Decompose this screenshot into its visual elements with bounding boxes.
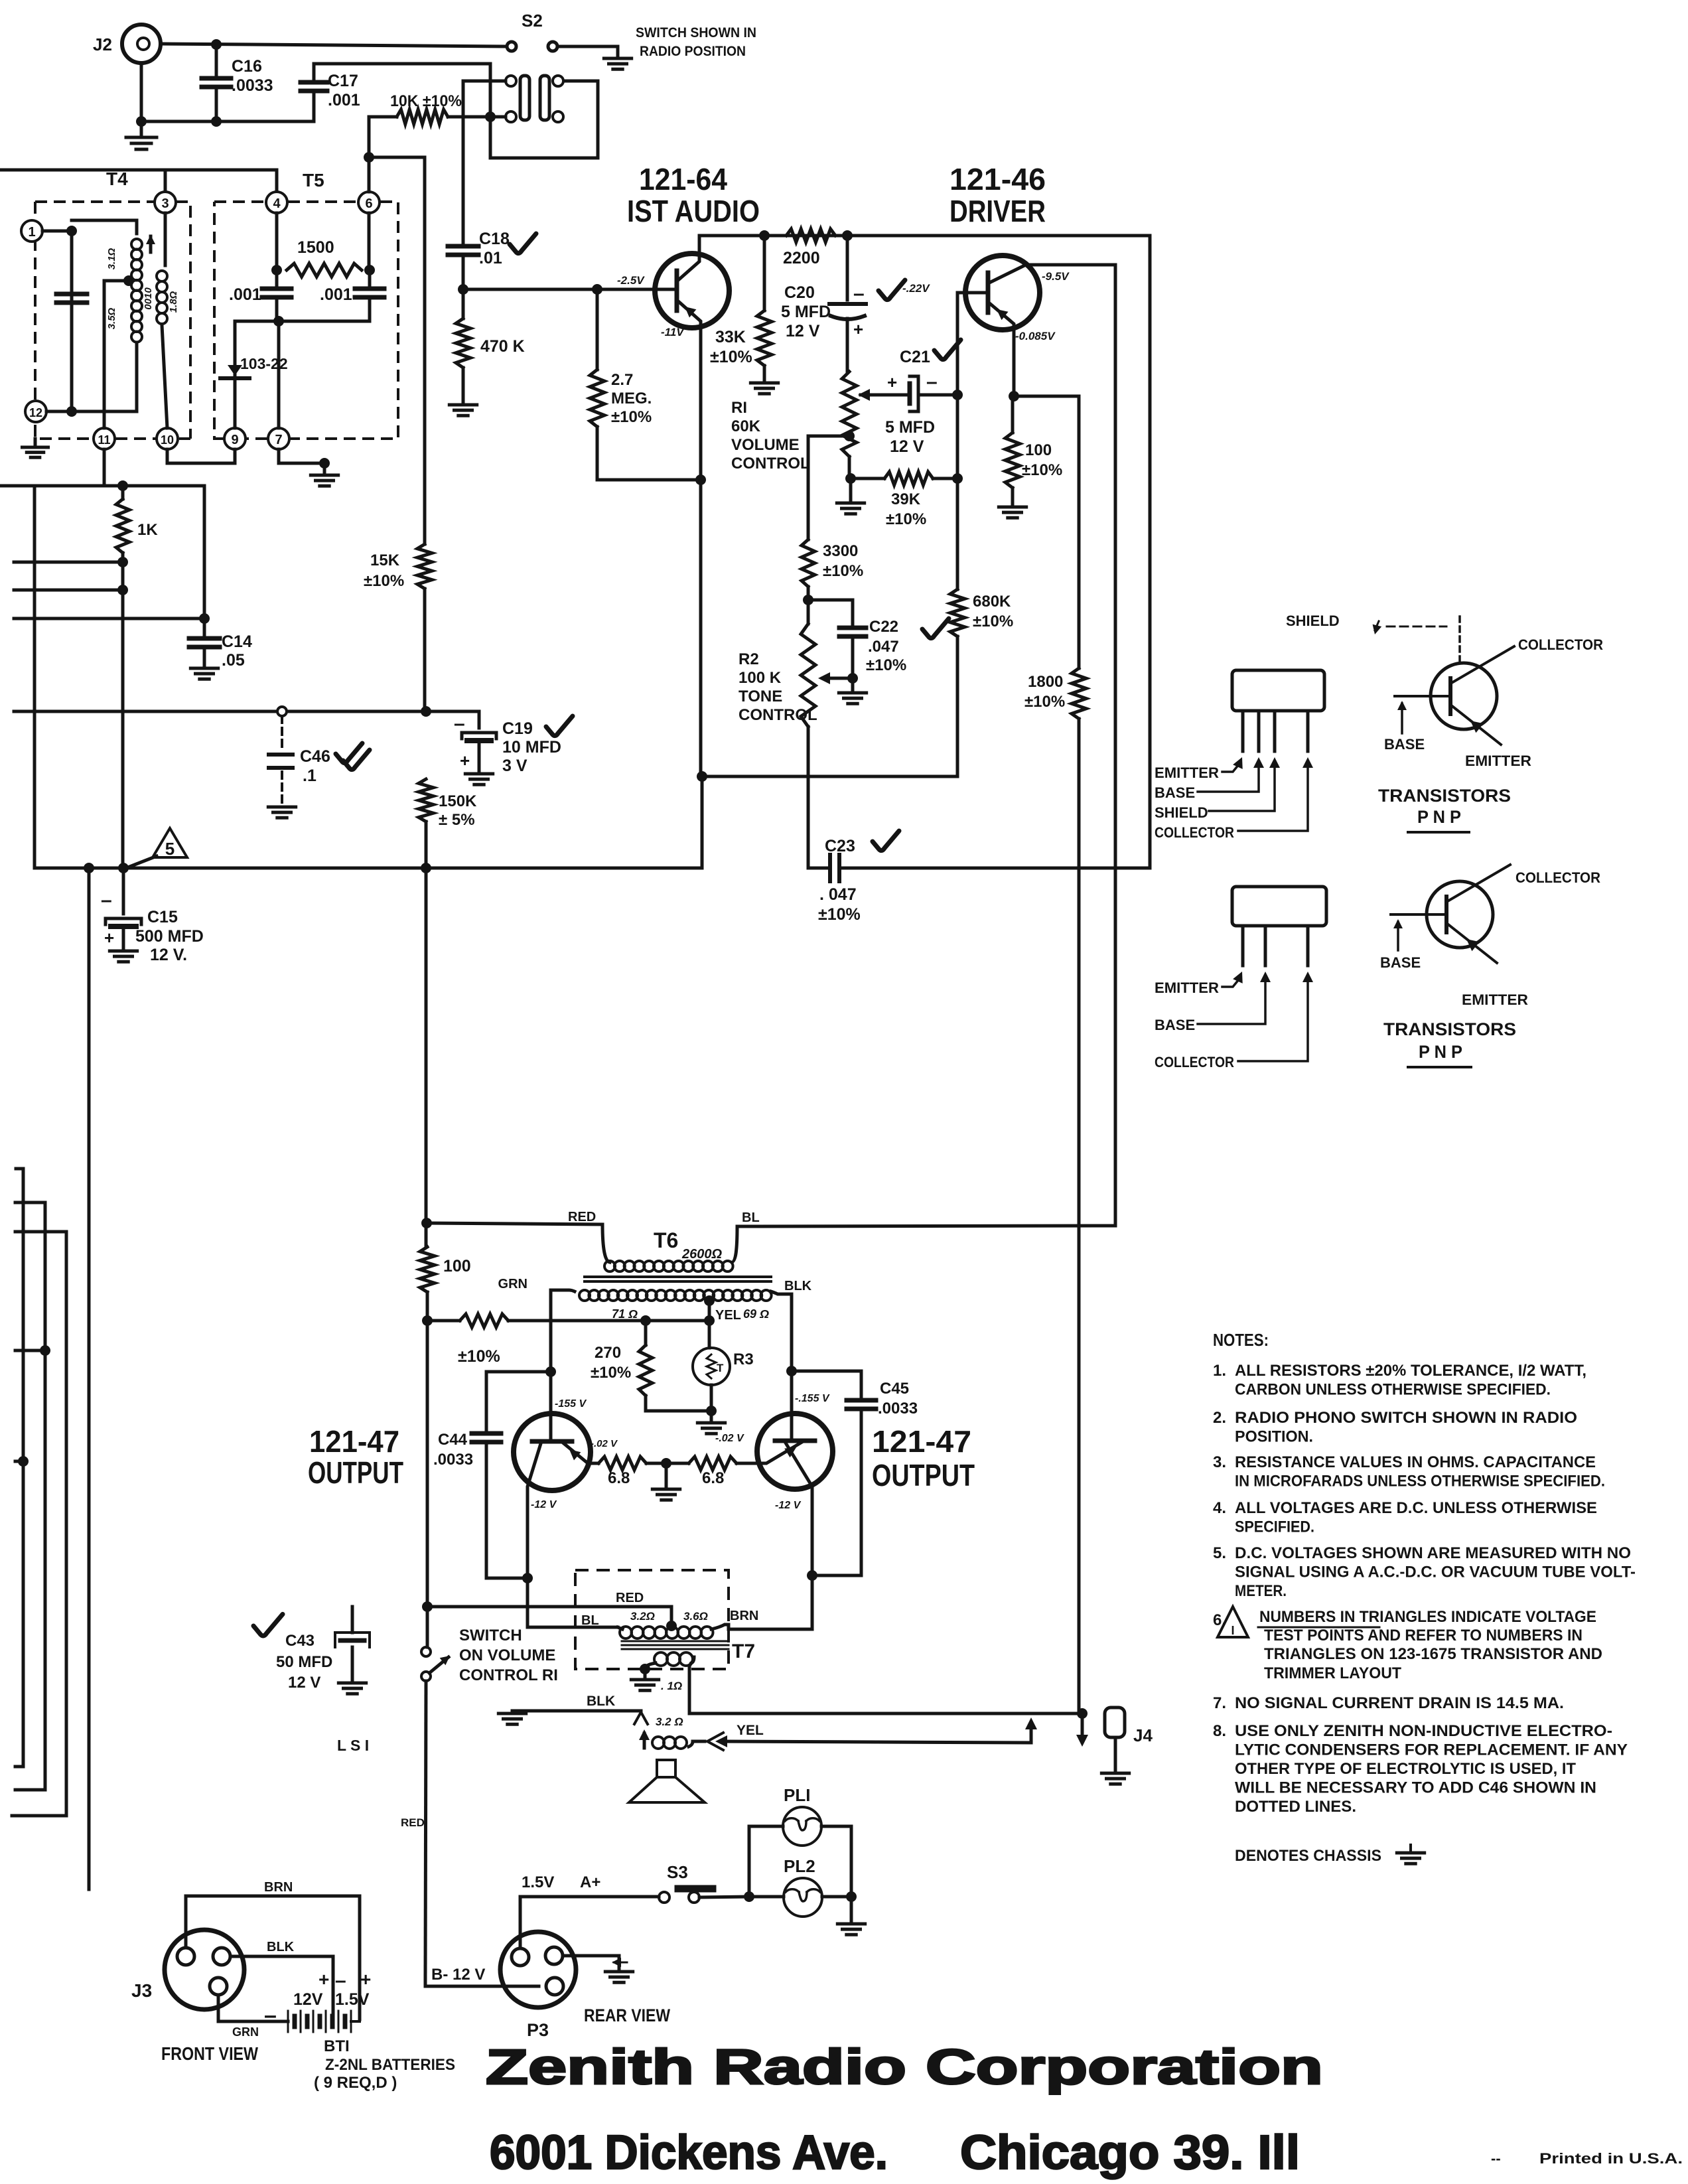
node PL2 right <box>846 1891 857 1902</box>
pnp1 collector <box>1450 646 1514 684</box>
svg-text:S2: S2 <box>522 11 543 31</box>
wire YEL <box>721 1741 1031 1743</box>
capacitor C44 <box>472 1431 501 1436</box>
checkmark C43 <box>253 1614 283 1636</box>
svg-text:+: + <box>853 319 863 339</box>
svg-text:±10%: ±10% <box>818 905 861 924</box>
switch S3 bar <box>678 1885 713 1893</box>
Q2 collector <box>988 265 1115 283</box>
chassis ground symbol <box>1409 1845 1412 1852</box>
svg-text:10: 10 <box>161 433 174 447</box>
svg-text:J4: J4 <box>1133 1725 1153 1745</box>
svg-text:COLLECTOR: COLLECTOR <box>1515 869 1600 886</box>
svg-text:C23: C23 <box>825 837 855 855</box>
svg-text:. 047: . 047 <box>819 885 857 904</box>
wire B-12V <box>425 1980 539 1986</box>
wire C45 bottom <box>812 1574 861 1577</box>
node C16 top <box>211 39 222 50</box>
svg-text:BL: BL <box>581 1613 599 1628</box>
svg-text:5: 5 <box>165 839 175 859</box>
svg-text:T7: T7 <box>732 1640 755 1662</box>
svg-text:.001: .001 <box>229 285 261 304</box>
svg-text:–: – <box>853 283 865 305</box>
wire C21 left <box>892 394 910 397</box>
svg-text:±10%: ±10% <box>823 562 863 580</box>
svg-text:3: 3 <box>161 196 169 211</box>
terminal 7 <box>268 428 289 449</box>
transistor package top view 1 <box>1232 670 1324 711</box>
terminal 3 <box>155 192 176 213</box>
svg-text:–: – <box>335 1970 346 1992</box>
wire 6.8 link <box>646 1462 689 1465</box>
svg-text:1.: 1. <box>1213 1362 1226 1380</box>
svg-text:3.: 3. <box>1213 1453 1226 1471</box>
P3 pin B <box>546 1978 563 1995</box>
svg-text:OTHER TYPE OF ELECTROLYTIC IS: OTHER TYPE OF ELECTROLYTIC IS USED, IT <box>1235 1760 1576 1778</box>
svg-text:. 1Ω: . 1Ω <box>661 1680 682 1692</box>
resistor 2.7MEG <box>596 289 599 370</box>
wire C14 gnd <box>203 647 206 667</box>
ground T5 <box>311 474 338 477</box>
wire 1K chain down <box>121 553 125 868</box>
svg-text:EMITTER: EMITTER <box>1462 991 1528 1008</box>
wire tap to tone chain <box>808 436 849 540</box>
transistor Q3 output <box>514 1414 591 1491</box>
svg-text:103-22: 103-22 <box>240 355 288 372</box>
ground at S2 <box>604 57 631 60</box>
svg-text:121-47: 121-47 <box>872 1424 971 1459</box>
svg-text:1: 1 <box>28 225 35 240</box>
wire PL2 leads <box>749 1895 784 1899</box>
svg-text:ALL VOLTAGES ARE D.C. UNLESS O: ALL VOLTAGES ARE D.C. UNLESS OTHERWISE <box>1235 1499 1597 1517</box>
svg-text:470 K: 470 K <box>480 337 525 356</box>
svg-text:( 9 REQ,D ): ( 9 REQ,D ) <box>314 2074 397 2092</box>
svg-text:60K: 60K <box>731 417 761 435</box>
svg-text:C17: C17 <box>328 72 358 90</box>
ground 100 <box>999 506 1026 509</box>
svg-text:+: + <box>360 1969 371 1990</box>
svg-text:10 MFD: 10 MFD <box>502 738 561 757</box>
inductor LS1 voice coil <box>652 1737 664 1749</box>
wire S2 arm to ground <box>557 46 618 57</box>
terminal 1 <box>21 220 42 242</box>
svg-text:-12 V: -12 V <box>531 1499 557 1510</box>
svg-text:METER.: METER. <box>1235 1582 1287 1600</box>
svg-text:± 5%: ± 5% <box>439 811 475 829</box>
capacitor C14 <box>189 636 220 641</box>
node C22 bottom <box>847 673 858 684</box>
transformer T4 dashed box <box>35 202 190 439</box>
svg-text:.1: .1 <box>303 766 316 785</box>
wire cap bottoms link <box>235 320 370 323</box>
resistor 6.8 left <box>598 1457 646 1470</box>
thermistor R3 <box>708 1321 711 1348</box>
Q4 collector <box>784 1441 812 1627</box>
switch arm <box>429 1657 449 1673</box>
transformer T5 dashed box <box>214 202 398 439</box>
ground J4 <box>1114 1737 1117 1772</box>
node pin7 gnd <box>319 458 330 469</box>
wire to C22 <box>808 600 853 628</box>
svg-text:4.: 4. <box>1213 1499 1226 1517</box>
ground R3 <box>710 1411 713 1421</box>
svg-text:69 Ω: 69 Ω <box>743 1307 769 1321</box>
capacitor C18 <box>448 244 478 249</box>
wire Q3 coll to T7 BL <box>527 1578 618 1627</box>
transistor package top view 2 <box>1232 887 1326 926</box>
pnp1 base lead <box>1395 695 1450 697</box>
svg-text:EMITTER: EMITTER <box>1155 980 1219 996</box>
svg-text:.0033: .0033 <box>433 1451 473 1469</box>
svg-text:L S I: L S I <box>337 1737 369 1754</box>
shield leader 1 <box>1209 766 1275 811</box>
wire YEL up arrow <box>1030 1723 1033 1743</box>
wire top link 3 to 4 <box>165 170 277 192</box>
svg-text:YEL: YEL <box>715 1308 741 1323</box>
resistor 6.8 right <box>689 1457 737 1470</box>
svg-text:71 Ω: 71 Ω <box>612 1307 638 1321</box>
checkmark C21 <box>934 340 961 360</box>
svg-text:OUTPUT: OUTPUT <box>872 1458 975 1492</box>
transistor Q1 1st audio <box>655 254 729 328</box>
ground below J2 <box>126 136 157 139</box>
svg-text:12V: 12V <box>293 1990 323 2009</box>
ground R1 <box>849 478 853 502</box>
ground C15 <box>109 950 137 953</box>
svg-text:RED: RED <box>616 1591 644 1605</box>
T6 core <box>585 1275 771 1278</box>
checkmark C19 <box>546 716 573 736</box>
svg-text:ALL RESISTORS ±20% TOLERANCE,: ALL RESISTORS ±20% TOLERANCE, I/2 WATT, <box>1235 1362 1586 1380</box>
Q1 emitter <box>677 300 701 480</box>
svg-text:T: T <box>717 1362 724 1374</box>
svg-text:RI: RI <box>731 399 747 417</box>
speaker LS1 <box>657 1760 675 1777</box>
svg-text:270: 270 <box>595 1344 621 1362</box>
node 3300-C22 <box>803 595 813 605</box>
svg-text:P3: P3 <box>527 2020 549 2040</box>
svg-text:P N P: P N P <box>1417 807 1461 827</box>
svg-text:121-64: 121-64 <box>639 162 727 196</box>
svg-text:-11V: -11V <box>661 326 685 338</box>
svg-text:–: – <box>264 2003 277 2028</box>
trimmer 103-22 <box>234 321 237 428</box>
wire 270 to R3 gnd <box>646 1410 711 1413</box>
svg-text:33K: 33K <box>715 328 746 346</box>
capacitor C23 <box>808 867 830 870</box>
svg-text:SIGNAL USING A A.C.-D.C. OR VA: SIGNAL USING A A.C.-D.C. OR VACUUM TUBE … <box>1235 1564 1636 1581</box>
svg-text:5.: 5. <box>1213 1544 1226 1562</box>
svg-text:50 MFD: 50 MFD <box>276 1653 332 1671</box>
svg-text:BLK: BLK <box>587 1694 615 1709</box>
coil tap T4 <box>123 275 134 286</box>
resistor 2200 <box>786 229 835 242</box>
svg-text:12 V: 12 V <box>890 437 924 456</box>
speaker plug arrow up <box>634 1712 648 1724</box>
svg-text:7.: 7. <box>1213 1694 1226 1712</box>
svg-text:3 V: 3 V <box>502 757 527 775</box>
wire C21 right <box>918 394 957 397</box>
svg-text:-.02 V: -.02 V <box>715 1433 744 1444</box>
inductor T4 primary <box>131 239 142 250</box>
switch S3 terminals <box>659 1892 669 1903</box>
ground 33K <box>750 382 778 385</box>
svg-text:C46: C46 <box>300 747 330 766</box>
node 33K top <box>759 230 770 241</box>
capacitor C17 <box>313 64 316 82</box>
svg-text:5 MFD: 5 MFD <box>885 418 935 437</box>
ground BLK wire <box>511 1711 514 1712</box>
node J2 gnd rail <box>136 116 147 127</box>
wire y1170 link <box>702 775 957 778</box>
resistor 10K <box>397 109 448 124</box>
svg-text:3300: 3300 <box>823 542 858 560</box>
svg-text:GRN: GRN <box>498 1277 527 1291</box>
ground T7 <box>644 1669 647 1678</box>
Q3 collector <box>527 1441 541 1578</box>
wire 150K to rail <box>425 822 428 868</box>
svg-text:2200: 2200 <box>783 249 820 267</box>
inductor T6 primary <box>604 1261 615 1272</box>
svg-text:CONTROL: CONTROL <box>731 455 810 473</box>
svg-text:–: – <box>926 371 938 393</box>
wire C17 top loop <box>314 64 598 158</box>
svg-text:BLK: BLK <box>267 1940 295 1954</box>
terminal 4 <box>266 192 287 213</box>
svg-text:7: 7 <box>275 433 282 447</box>
svg-text:500 MFD: 500 MFD <box>135 927 204 946</box>
node Q2 emitter junction <box>1009 391 1019 401</box>
svg-text:100 K: 100 K <box>738 669 782 687</box>
Q4 emitter <box>757 1441 804 1463</box>
svg-text:15K: 15K <box>370 551 400 569</box>
terminal 9 <box>224 428 246 449</box>
node C21-base <box>952 390 963 400</box>
ground C14 <box>190 667 218 670</box>
node R1 tap <box>844 431 855 441</box>
phono jack right pins <box>553 76 563 86</box>
svg-text:EMITTER: EMITTER <box>1155 764 1219 781</box>
node 2.7MEG top <box>592 284 602 295</box>
svg-text:D.C. VOLTAGES SHOWN ARE MEASUR: D.C. VOLTAGES SHOWN ARE MEASURED WITH NO <box>1235 1544 1631 1562</box>
svg-text:CONTROL RI: CONTROL RI <box>459 1666 558 1684</box>
svg-text:NOTES:: NOTES: <box>1213 1330 1269 1350</box>
wire BLK speaker <box>512 1710 641 1713</box>
svg-text:C43: C43 <box>285 1632 315 1650</box>
arrow T4 tuning <box>149 236 153 252</box>
node 39K-680K <box>952 473 963 484</box>
svg-text:A+: A+ <box>580 1873 600 1891</box>
svg-text:BL: BL <box>742 1210 760 1225</box>
svg-text:BTI: BTI <box>324 2037 350 2055</box>
svg-text:IST AUDIO: IST AUDIO <box>627 194 760 228</box>
lamp PL1 <box>783 1807 821 1846</box>
svg-text:C45: C45 <box>880 1380 909 1398</box>
pnp2 base lead <box>1391 913 1446 916</box>
switch S2 terminal right <box>548 42 557 51</box>
Q1 collector <box>677 236 699 281</box>
node emitter junction <box>695 474 706 485</box>
svg-text:TRIMMER LAYOUT: TRIMMER LAYOUT <box>1264 1664 1401 1682</box>
svg-text:BLK: BLK <box>784 1279 812 1293</box>
capacitor C22 <box>839 626 866 630</box>
ground C22 <box>851 678 855 692</box>
node 150K bottom <box>421 863 431 873</box>
svg-text:T6: T6 <box>654 1228 678 1252</box>
svg-text:1800: 1800 <box>1028 673 1063 691</box>
lamp PL2 <box>784 1878 822 1917</box>
svg-text:3.2 Ω: 3.2 Ω <box>656 1715 683 1728</box>
test point triangle 5 <box>153 828 187 857</box>
svg-text:COLLECTOR: COLLECTOR <box>1518 636 1603 653</box>
node 1K bottom <box>117 585 128 595</box>
node 10K/T5-6/15K junction <box>364 152 374 163</box>
node Q4 coll C45 <box>807 1570 817 1581</box>
Q3 base lead <box>549 1372 553 1441</box>
svg-text:39K: 39K <box>891 490 921 508</box>
svg-text:.01: .01 <box>479 249 502 267</box>
svg-text:BRN: BRN <box>264 1880 293 1895</box>
inductor T7 secondary <box>654 1652 668 1666</box>
resistor 100 driver <box>1011 396 1015 433</box>
svg-text:R3: R3 <box>733 1350 754 1368</box>
wire jack top to C18 line <box>463 80 506 83</box>
svg-text:EMITTER: EMITTER <box>1465 753 1531 769</box>
svg-text:-9.5V: -9.5V <box>1042 270 1070 283</box>
svg-text:121-46: 121-46 <box>949 162 1046 196</box>
capacitor .001 right <box>368 270 372 289</box>
svg-text:–: – <box>101 889 112 911</box>
svg-text:.001: .001 <box>320 285 352 304</box>
node RED rail <box>421 1218 432 1228</box>
svg-text:COLLECTOR: COLLECTOR <box>1155 1054 1234 1070</box>
connector P3 <box>500 1932 576 2007</box>
emitter leader 1 <box>1222 764 1239 772</box>
node C19 junction <box>421 706 431 717</box>
svg-text:3.5Ω: 3.5Ω <box>106 307 117 329</box>
svg-text:Z-2NL BATTERIES: Z-2NL BATTERIES <box>325 2056 455 2074</box>
ground PL <box>850 1897 853 1923</box>
wire base line to Q1 <box>463 288 677 291</box>
connector J4 <box>1105 1708 1125 1737</box>
wire long rail y1308 <box>35 867 702 870</box>
transistor PNP symbol 2 <box>1427 881 1493 948</box>
wire GRN <box>218 1995 288 2021</box>
svg-text:1.5V: 1.5V <box>335 1990 370 2009</box>
svg-text:±10%: ±10% <box>1022 461 1062 479</box>
P3 pin gnd <box>545 1947 563 1964</box>
R1 wiper <box>861 394 892 397</box>
wire x1058 to rail <box>701 776 704 868</box>
svg-text:LYTIC CONDENSERS FOR REPLACEME: LYTIC CONDENSERS FOR REPLACEMENT. IF ANY <box>1235 1741 1628 1759</box>
wire PL left rail <box>749 1826 783 1897</box>
switch on volume terminals <box>421 1647 431 1656</box>
svg-text:±10%: ±10% <box>591 1364 631 1382</box>
resistor 1800 <box>1072 668 1086 719</box>
resistor 15K <box>417 544 432 589</box>
wire C14 stem <box>203 486 206 619</box>
svg-text:+: + <box>104 928 114 948</box>
resistor 1500 <box>275 213 279 239</box>
ground C19 <box>465 772 492 776</box>
terminal 12 <box>25 401 46 422</box>
ground C46 <box>268 806 295 809</box>
wire S3 to PL <box>699 1897 749 1897</box>
svg-text:SHIELD: SHIELD <box>1155 804 1208 821</box>
svg-text:ON VOLUME: ON VOLUME <box>459 1646 555 1664</box>
svg-text:100: 100 <box>1025 441 1052 459</box>
node 1K top <box>117 480 128 491</box>
svg-text:+: + <box>887 372 897 392</box>
wire bus right loop <box>852 236 1150 868</box>
ground T4 box <box>34 439 37 446</box>
node rail x186 <box>118 863 129 873</box>
svg-text:12: 12 <box>29 406 42 419</box>
P3 gnd arrow <box>614 1962 627 1964</box>
svg-text:-.22V: -.22V <box>902 282 930 295</box>
voice coil arrow <box>643 1733 646 1748</box>
svg-text:±10%: ±10% <box>611 408 652 426</box>
T7 primary leads <box>618 1627 622 1629</box>
wire rail to switch <box>426 1607 429 1647</box>
YEL arrowheads <box>707 1733 723 1750</box>
svg-text:+: + <box>318 1969 329 1990</box>
connector J2 <box>122 25 161 63</box>
svg-text:COLLECTOR: COLLECTOR <box>1155 824 1234 841</box>
svg-text:680K: 680K <box>973 593 1011 611</box>
wire left y932 <box>14 617 204 620</box>
wire 10K to jack <box>495 115 506 119</box>
inductor T6 secondary <box>579 1290 590 1301</box>
svg-text:.0033: .0033 <box>232 76 273 95</box>
node rail RED T7 <box>422 1601 433 1612</box>
svg-text:-.155 V: -.155 V <box>795 1393 830 1404</box>
svg-text:6.8: 6.8 <box>702 1469 724 1487</box>
wire left y1072 <box>14 710 479 713</box>
svg-text:121-47: 121-47 <box>309 1424 399 1459</box>
svg-text:OUTPUT: OUTPUT <box>308 1455 403 1490</box>
voice coil right lead <box>689 1741 705 1747</box>
T6 sec left lead <box>551 1290 575 1372</box>
inductor T4 secondary <box>157 271 167 281</box>
svg-text:1K: 1K <box>137 521 158 539</box>
wire 10K left leg <box>368 117 371 157</box>
T6 primary left lead <box>602 1224 610 1262</box>
svg-text:±10%: ±10% <box>866 656 906 674</box>
svg-text:12 V: 12 V <box>288 1674 320 1692</box>
potentiometer R2 <box>807 587 810 600</box>
svg-text:R2: R2 <box>738 650 759 668</box>
svg-text:-2.5V: -2.5V <box>617 274 645 287</box>
svg-text:TEST POINTS AND REFER TO NUMBE: TEST POINTS AND REFER TO NUMBERS IN <box>1264 1627 1582 1644</box>
base leader 2 <box>1198 981 1265 1024</box>
main bus y355 <box>699 234 1150 238</box>
pnp1 shield dashed <box>1458 617 1461 664</box>
svg-text:12 V: 12 V <box>786 322 820 340</box>
wire switch down <box>425 1681 426 1980</box>
svg-text:C14: C14 <box>222 632 252 651</box>
svg-text:I: I <box>1231 1624 1234 1637</box>
wire 10 to 9 link <box>167 449 235 463</box>
terminal 10 <box>157 428 178 449</box>
resistor 1K <box>116 499 129 553</box>
ground 6.8 <box>665 1463 668 1488</box>
node Q3 base junction <box>545 1366 556 1377</box>
wire pin11 down <box>103 449 106 486</box>
switch S2 terminal left <box>507 42 516 51</box>
svg-text:REAR VIEW: REAR VIEW <box>584 2005 670 2025</box>
wire PL right rail <box>821 1826 851 1897</box>
